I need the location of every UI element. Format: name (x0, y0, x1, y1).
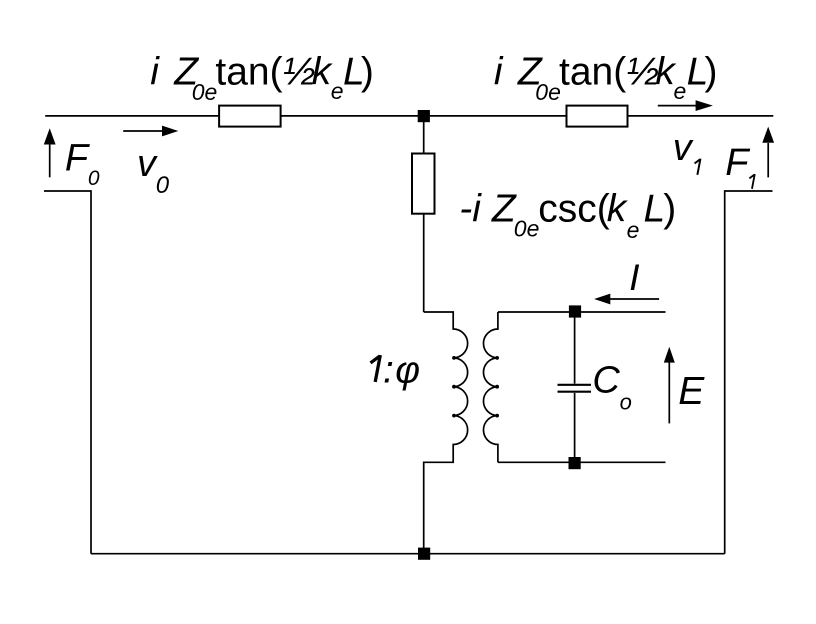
capacitor C0 plates (558, 385, 592, 392)
wire: left port step (F0 terminal) (44, 191, 91, 554)
svg-text:F: F (65, 138, 90, 180)
svg-text:o: o (620, 390, 632, 415)
value label: i Z0e tan(1/2 ke L) for Z1 (150, 51, 374, 105)
svg-text:φ: φ (395, 349, 420, 391)
svg-text:0: 0 (156, 172, 170, 199)
value label: -i Z0e csc(ke L) for Z3 (459, 188, 676, 244)
arrow E (voltage arrow, pointing up) (664, 347, 675, 424)
wire: secondary top rail (498, 311, 666, 313)
svg-text:): ) (361, 51, 374, 94)
svg-text:e: e (627, 217, 640, 243)
svg-text:-i: -i (459, 188, 482, 231)
wire: bottom return bus (91, 553, 725, 555)
impedance Z1 (series, left) box (219, 106, 281, 127)
svg-text:tan(: tan( (215, 51, 282, 94)
arrow I (current arrow, pointing left) (594, 294, 659, 305)
label v1 (673, 127, 701, 175)
junction node: secondary top rail / capacitor (569, 305, 581, 317)
svg-text::: : (383, 348, 394, 391)
svg-text:): ) (705, 51, 718, 94)
svg-text:csc(: csc( (538, 188, 610, 231)
svg-text:F: F (725, 142, 750, 184)
svg-text:0e: 0e (192, 79, 218, 105)
junction node: top bus / shunt branch (418, 110, 430, 122)
svg-text:i: i (494, 51, 504, 94)
capacitor C0 top lead (574, 312, 576, 384)
svg-text:L: L (644, 188, 666, 231)
transformer T1 primary winding arc-joint dots (452, 356, 456, 418)
svg-text:i: i (150, 51, 160, 94)
arrow v1 (velocity arrow, right, pointing right) (658, 100, 713, 111)
svg-text:k: k (607, 188, 629, 231)
svg-text:I: I (629, 256, 639, 298)
svg-text:tan(: tan( (559, 51, 626, 94)
svg-text:e: e (674, 78, 687, 104)
value label: i Z0e tan(1/2 ke L) for Z2 (494, 51, 718, 105)
transformer T1 primary winding (424, 312, 468, 554)
arrow F1 (upward force arrow, right port) (762, 127, 774, 178)
transformer T1 secondary winding arc-joint dots (495, 356, 499, 418)
svg-text:v: v (673, 127, 694, 169)
svg-text:C: C (592, 360, 620, 402)
transformer T1 secondary winding (483, 312, 497, 462)
arrow v0 (velocity arrow, left, pointing right) (123, 126, 178, 137)
junction node: secondary bottom rail / capacitor (569, 457, 581, 469)
svg-text:0: 0 (88, 167, 100, 190)
label F0 (65, 138, 100, 191)
value label: 1:phi turns ratio of T1 (371, 348, 421, 391)
label F1 (725, 142, 754, 189)
wire: center shunt branch lower segment (423, 214, 425, 312)
junction node: bottom bus / transformer branch (418, 548, 430, 560)
impedance Z2 (series, right) box (567, 106, 628, 127)
wire: top bus from port F0 to port F1 (45, 115, 773, 117)
svg-text:): ) (663, 188, 676, 231)
capacitor C0 bottom lead (574, 393, 576, 462)
value label: Co (592, 360, 631, 415)
wire: right port step (F1 terminal) (725, 191, 773, 554)
wire: center shunt branch upper segment (423, 116, 425, 154)
svg-text:0e: 0e (514, 216, 540, 242)
arrow F0 (upward force arrow, left port) (44, 128, 56, 177)
svg-text:E: E (678, 370, 705, 413)
impedance Z3 (shunt) box (412, 154, 435, 214)
svg-text:e: e (331, 78, 344, 104)
svg-text:0e: 0e (535, 79, 561, 105)
wire: secondary bottom rail (498, 461, 666, 463)
label v0 (137, 143, 170, 199)
